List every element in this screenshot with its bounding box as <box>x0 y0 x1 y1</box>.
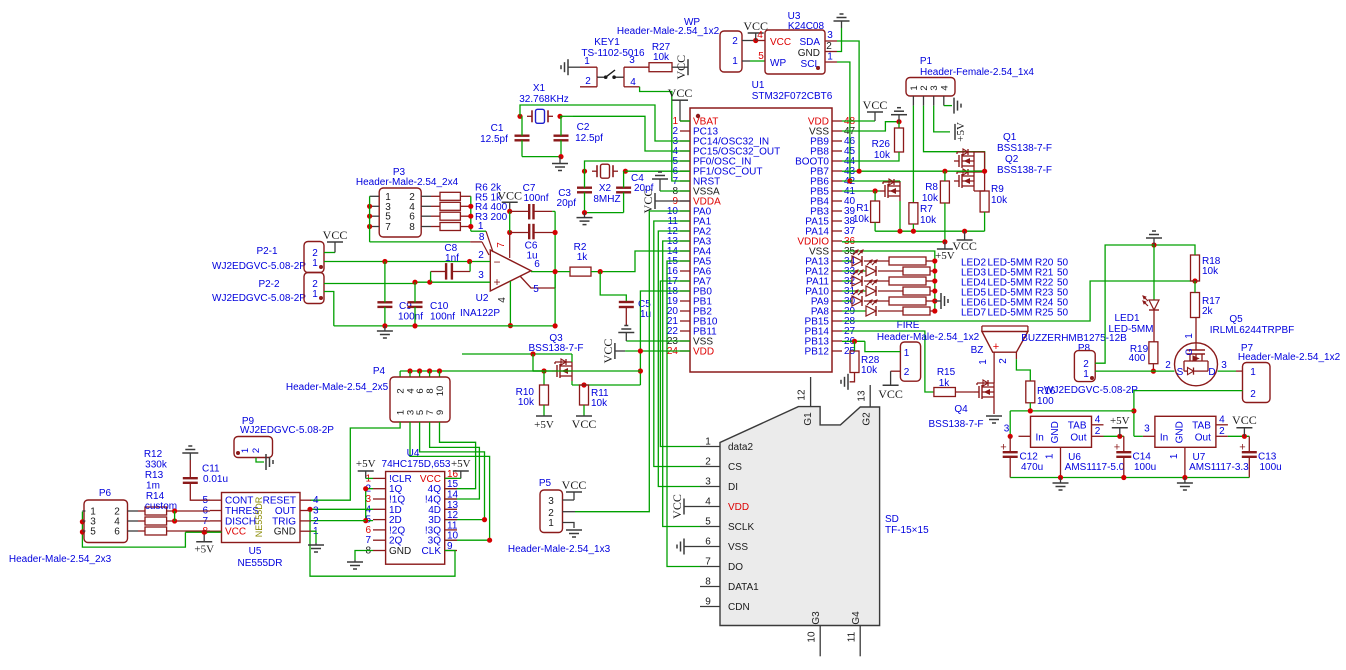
svg-text:+: + <box>1239 442 1245 454</box>
svg-text:1u: 1u <box>526 251 537 262</box>
svg-text:2: 2 <box>251 448 262 453</box>
svg-text:Q4: Q4 <box>954 404 968 415</box>
svg-text:4: 4 <box>757 30 763 41</box>
svg-text:GND: GND <box>798 48 820 59</box>
svg-text:GND: GND <box>389 546 411 557</box>
svg-text:BZ: BZ <box>971 345 984 356</box>
svg-text:BSS138-7-F: BSS138-7-F <box>528 343 583 354</box>
svg-text:+5V: +5V <box>955 122 967 142</box>
svg-text:Out: Out <box>1070 432 1086 443</box>
svg-text:1: 1 <box>312 258 318 269</box>
svg-text:+5V: +5V <box>194 544 214 556</box>
svg-text:BSS138-7-F: BSS138-7-F <box>928 419 983 430</box>
svg-text:Q1: Q1 <box>1003 132 1017 143</box>
svg-text:1: 1 <box>240 448 251 453</box>
svg-text:VCC: VCC <box>770 37 791 48</box>
svg-text:+5V: +5V <box>534 419 554 431</box>
svg-text:WJ2EDGVC-5.08-2P: WJ2EDGVC-5.08-2P <box>1044 385 1138 396</box>
svg-text:VCC: VCC <box>572 417 597 431</box>
svg-text:G3: G3 <box>811 611 822 625</box>
svg-text:5: 5 <box>90 527 96 538</box>
svg-text:KEY1: KEY1 <box>594 37 620 48</box>
svg-text:PB12: PB12 <box>805 347 830 358</box>
svg-text:330k: 330k <box>145 460 168 471</box>
svg-text:+: + <box>993 341 999 353</box>
svg-text:INA122P: INA122P <box>460 308 500 319</box>
svg-text:P4: P4 <box>373 366 386 377</box>
svg-text:5: 5 <box>533 284 539 295</box>
svg-text:10k: 10k <box>518 397 535 408</box>
svg-text:G4: G4 <box>851 611 862 625</box>
svg-text:20pf: 20pf <box>557 198 577 209</box>
svg-text:8: 8 <box>409 222 415 233</box>
svg-text:NE555DR: NE555DR <box>254 496 264 537</box>
svg-text:13: 13 <box>857 390 868 402</box>
svg-text:3: 3 <box>629 55 635 66</box>
svg-text:100nf: 100nf <box>430 312 455 323</box>
svg-text:R1: R1 <box>856 203 869 214</box>
svg-text:50: 50 <box>1057 308 1069 319</box>
svg-text:1m: 1m <box>146 481 160 492</box>
svg-text:U1: U1 <box>752 80 765 91</box>
svg-text:U5: U5 <box>249 546 262 557</box>
svg-text:DI: DI <box>728 482 738 493</box>
svg-text:2: 2 <box>1219 426 1225 437</box>
svg-text:−: − <box>493 255 500 269</box>
svg-text:VCC: VCC <box>562 478 587 492</box>
svg-text:X2: X2 <box>599 183 612 194</box>
svg-text:TAB: TAB <box>1192 420 1211 431</box>
svg-text:74HC175D,653: 74HC175D,653 <box>382 459 451 470</box>
svg-text:X1: X1 <box>533 83 546 94</box>
svg-text:SD: SD <box>885 514 899 525</box>
svg-text:SDA: SDA <box>799 37 820 48</box>
svg-text:VCC: VCC <box>601 339 615 364</box>
svg-text:WJ2EDGVC-5.08-2P: WJ2EDGVC-5.08-2P <box>212 293 306 304</box>
svg-text:4: 4 <box>939 85 950 90</box>
svg-text:1: 1 <box>1045 453 1056 459</box>
svg-text:TS-1102-5016: TS-1102-5016 <box>581 48 645 59</box>
svg-text:3: 3 <box>313 506 319 517</box>
svg-text:8: 8 <box>705 577 711 588</box>
svg-text:C12: C12 <box>1020 452 1039 463</box>
svg-text:Header-Male-2.54_2x5: Header-Male-2.54_2x5 <box>286 382 389 393</box>
svg-text:11: 11 <box>847 631 858 642</box>
svg-text:R12: R12 <box>144 449 163 460</box>
svg-text:TF-15×15: TF-15×15 <box>885 525 929 536</box>
svg-text:Header-Male-2.54_2x4: Header-Male-2.54_2x4 <box>356 177 459 188</box>
svg-text:Header-Male-2.54_2x3: Header-Male-2.54_2x3 <box>9 554 112 565</box>
svg-text:1: 1 <box>1184 333 1195 339</box>
svg-text:K24C08: K24C08 <box>788 21 825 32</box>
svg-text:R9: R9 <box>991 184 1004 195</box>
svg-text:C14: C14 <box>1133 452 1152 463</box>
svg-text:3: 3 <box>548 496 554 507</box>
svg-text:CS: CS <box>728 462 742 473</box>
svg-text:2k: 2k <box>1202 306 1214 317</box>
svg-text:Q2: Q2 <box>1005 154 1019 165</box>
svg-text:+: + <box>493 275 500 289</box>
svg-text:custom: custom <box>145 501 177 512</box>
svg-text:P2-1: P2-1 <box>256 246 278 257</box>
svg-text:P2-2: P2-2 <box>258 279 280 290</box>
svg-text:10: 10 <box>807 631 818 643</box>
svg-text:10: 10 <box>435 386 446 397</box>
svg-text:2: 2 <box>826 41 832 52</box>
svg-text:VCC: VCC <box>743 19 768 33</box>
svg-text:3: 3 <box>1004 423 1010 434</box>
svg-text:7: 7 <box>385 222 391 233</box>
svg-text:VCC: VCC <box>225 527 246 538</box>
svg-text:Header-Male-2.54_1x2: Header-Male-2.54_1x2 <box>1238 352 1341 363</box>
svg-text:3: 3 <box>1144 423 1150 434</box>
svg-text:CDN: CDN <box>728 602 750 613</box>
svg-text:1: 1 <box>827 52 833 63</box>
svg-text:GND: GND <box>274 527 296 538</box>
svg-text:4: 4 <box>1095 414 1101 425</box>
svg-text:WJ2EDGVC-5.08-2P: WJ2EDGVC-5.08-2P <box>212 261 306 272</box>
svg-text:LED1: LED1 <box>1114 313 1139 324</box>
svg-text:P6: P6 <box>99 488 112 499</box>
svg-text:1: 1 <box>584 56 590 67</box>
svg-text:Header-Male-2.54_1x2: Header-Male-2.54_1x2 <box>877 332 980 343</box>
svg-text:SCLK: SCLK <box>728 522 754 533</box>
svg-text:2: 2 <box>1165 360 1171 371</box>
svg-text:2: 2 <box>585 76 591 87</box>
svg-text:12: 12 <box>797 389 808 401</box>
svg-text:3: 3 <box>705 477 711 488</box>
svg-text:VCC: VCC <box>674 55 688 80</box>
svg-text:2: 2 <box>998 358 1009 364</box>
svg-text:OUT: OUT <box>275 506 296 517</box>
svg-text:1: 1 <box>312 289 318 300</box>
svg-text:5: 5 <box>705 517 711 528</box>
svg-text:3: 3 <box>827 30 833 41</box>
svg-text:G: G <box>1184 348 1194 355</box>
svg-text:9: 9 <box>705 597 711 608</box>
svg-text:Out: Out <box>1195 432 1211 443</box>
svg-text:10k: 10k <box>591 398 608 409</box>
svg-text:AMS1117-5.0: AMS1117-5.0 <box>1065 462 1125 473</box>
svg-text:VDD: VDD <box>728 502 749 513</box>
svg-text:DATA1: DATA1 <box>728 582 759 593</box>
svg-text:CLK: CLK <box>422 546 442 557</box>
svg-text:10k: 10k <box>653 52 670 63</box>
svg-text:4: 4 <box>630 77 636 88</box>
svg-text:+5V: +5V <box>935 250 955 262</box>
svg-text:10k: 10k <box>861 365 878 376</box>
svg-text:1: 1 <box>705 437 711 448</box>
svg-text:6: 6 <box>114 527 120 538</box>
svg-text:10k: 10k <box>853 214 870 225</box>
svg-text:P1: P1 <box>920 56 933 67</box>
svg-text:10k: 10k <box>920 215 937 226</box>
svg-text:R26: R26 <box>872 139 891 150</box>
svg-text:100u: 100u <box>1260 462 1282 473</box>
svg-text:VCC: VCC <box>670 494 684 519</box>
svg-text:D: D <box>1208 367 1215 378</box>
svg-text:VDD: VDD <box>693 347 714 358</box>
svg-text:+: + <box>1000 442 1006 454</box>
svg-text:In: In <box>1036 432 1044 443</box>
svg-text:3: 3 <box>1221 360 1227 371</box>
svg-text:TAB: TAB <box>1068 420 1087 431</box>
svg-text:2: 2 <box>1095 426 1101 437</box>
svg-text:VCC: VCC <box>863 98 888 112</box>
svg-text:100: 100 <box>1037 396 1054 407</box>
svg-text:10k: 10k <box>1202 266 1219 277</box>
svg-text:R3 200: R3 200 <box>475 212 508 223</box>
svg-text:VCC: VCC <box>323 228 348 242</box>
svg-text:4: 4 <box>705 497 711 508</box>
svg-text:1: 1 <box>1250 367 1256 378</box>
svg-text:S: S <box>1177 367 1184 378</box>
svg-text:1: 1 <box>1169 453 1180 459</box>
svg-text:10k: 10k <box>874 150 891 161</box>
svg-text:R13: R13 <box>145 470 164 481</box>
svg-text:3: 3 <box>478 270 484 281</box>
svg-text:2: 2 <box>732 36 738 47</box>
svg-text:100u: 100u <box>1134 462 1156 473</box>
svg-text:2: 2 <box>1250 389 1256 400</box>
svg-text:LED-5MM: LED-5MM <box>988 308 1033 319</box>
svg-text:5: 5 <box>758 51 764 62</box>
svg-text:2: 2 <box>904 367 910 378</box>
svg-text:1: 1 <box>1083 369 1089 380</box>
svg-text:VCC: VCC <box>878 387 903 401</box>
svg-text:P5: P5 <box>539 478 552 489</box>
svg-text:WJ2EDGVC-5.08-2P: WJ2EDGVC-5.08-2P <box>240 425 334 436</box>
svg-text:6: 6 <box>705 537 711 548</box>
svg-text:+: + <box>1114 442 1120 454</box>
svg-text:R8: R8 <box>925 182 938 193</box>
svg-text:AMS1117-3.3: AMS1117-3.3 <box>1189 462 1249 473</box>
svg-text:+5V: +5V <box>451 458 471 470</box>
svg-text:IRLML6244TRPBF: IRLML6244TRPBF <box>1210 325 1294 336</box>
svg-text:C1: C1 <box>491 123 504 134</box>
svg-text:data2: data2 <box>728 442 753 453</box>
svg-text:32.768KHz: 32.768KHz <box>519 94 568 105</box>
svg-text:WP: WP <box>770 58 786 69</box>
svg-text:12.5pf: 12.5pf <box>480 134 508 145</box>
svg-text:10k: 10k <box>922 193 939 204</box>
svg-text:+5V: +5V <box>356 458 376 470</box>
svg-text:1: 1 <box>978 359 989 365</box>
svg-text:R7: R7 <box>920 204 933 215</box>
svg-text:100nf: 100nf <box>523 193 548 204</box>
svg-text:LED-5MM: LED-5MM <box>1108 324 1153 335</box>
svg-text:+5V: +5V <box>1110 415 1130 427</box>
svg-text:R25: R25 <box>1035 308 1054 319</box>
svg-text:C2: C2 <box>577 122 590 133</box>
svg-text:2: 2 <box>705 457 711 468</box>
svg-text:U4: U4 <box>407 448 420 459</box>
svg-text:7: 7 <box>496 242 507 248</box>
svg-text:1: 1 <box>548 518 554 529</box>
svg-text:1nf: 1nf <box>445 253 459 264</box>
svg-text:C10: C10 <box>430 301 449 312</box>
svg-text:0.01u: 0.01u <box>203 474 228 485</box>
svg-text:U2: U2 <box>476 293 489 304</box>
svg-text:GND: GND <box>1050 421 1061 443</box>
svg-text:VCC: VCC <box>497 188 522 202</box>
svg-text:10k: 10k <box>991 195 1008 206</box>
svg-text:Header-Male-2.54_1x3: Header-Male-2.54_1x3 <box>508 544 611 555</box>
svg-text:12.5pf: 12.5pf <box>575 133 603 144</box>
svg-text:1: 1 <box>904 348 910 359</box>
svg-text:8MHZ: 8MHZ <box>593 194 620 205</box>
svg-text:G1: G1 <box>803 412 814 426</box>
svg-text:NE555DR: NE555DR <box>237 558 282 569</box>
svg-text:1k: 1k <box>577 252 589 263</box>
svg-text:VCC: VCC <box>952 239 977 253</box>
svg-text:2: 2 <box>478 250 484 261</box>
svg-text:BSS138-7-F: BSS138-7-F <box>997 143 1052 154</box>
svg-text:GND: GND <box>1174 421 1185 443</box>
svg-text:Header-Female-2.54_1x4: Header-Female-2.54_1x4 <box>920 67 1034 78</box>
svg-text:Header-Male-2.54_1x2: Header-Male-2.54_1x2 <box>617 26 720 37</box>
svg-text:P8: P8 <box>1078 343 1091 354</box>
svg-text:BSS138-7-F: BSS138-7-F <box>997 165 1052 176</box>
svg-text:G2: G2 <box>862 412 873 426</box>
svg-text:1: 1 <box>732 56 738 67</box>
svg-text:DO: DO <box>728 562 743 573</box>
svg-text:STM32F072CBT6: STM32F072CBT6 <box>752 91 833 102</box>
svg-text:C13: C13 <box>1258 452 1277 463</box>
svg-text:4: 4 <box>497 297 508 303</box>
svg-text:7: 7 <box>705 557 711 568</box>
svg-text:400: 400 <box>1129 353 1146 364</box>
svg-text:VCC: VCC <box>1232 413 1257 427</box>
svg-text:1k: 1k <box>939 378 951 389</box>
svg-text:VCC: VCC <box>668 86 693 100</box>
svg-text:LED7: LED7 <box>961 308 986 319</box>
svg-text:9: 9 <box>435 410 446 415</box>
svg-text:VSS: VSS <box>728 542 748 553</box>
svg-text:Q5: Q5 <box>1229 314 1243 325</box>
svg-text:470u: 470u <box>1021 462 1043 473</box>
svg-text:In: In <box>1160 432 1168 443</box>
svg-text:100nf: 100nf <box>398 312 423 323</box>
svg-text:C11: C11 <box>202 464 220 475</box>
svg-text:4: 4 <box>1219 414 1225 425</box>
svg-text:R15: R15 <box>937 367 956 378</box>
svg-text:VCC: VCC <box>641 189 655 214</box>
